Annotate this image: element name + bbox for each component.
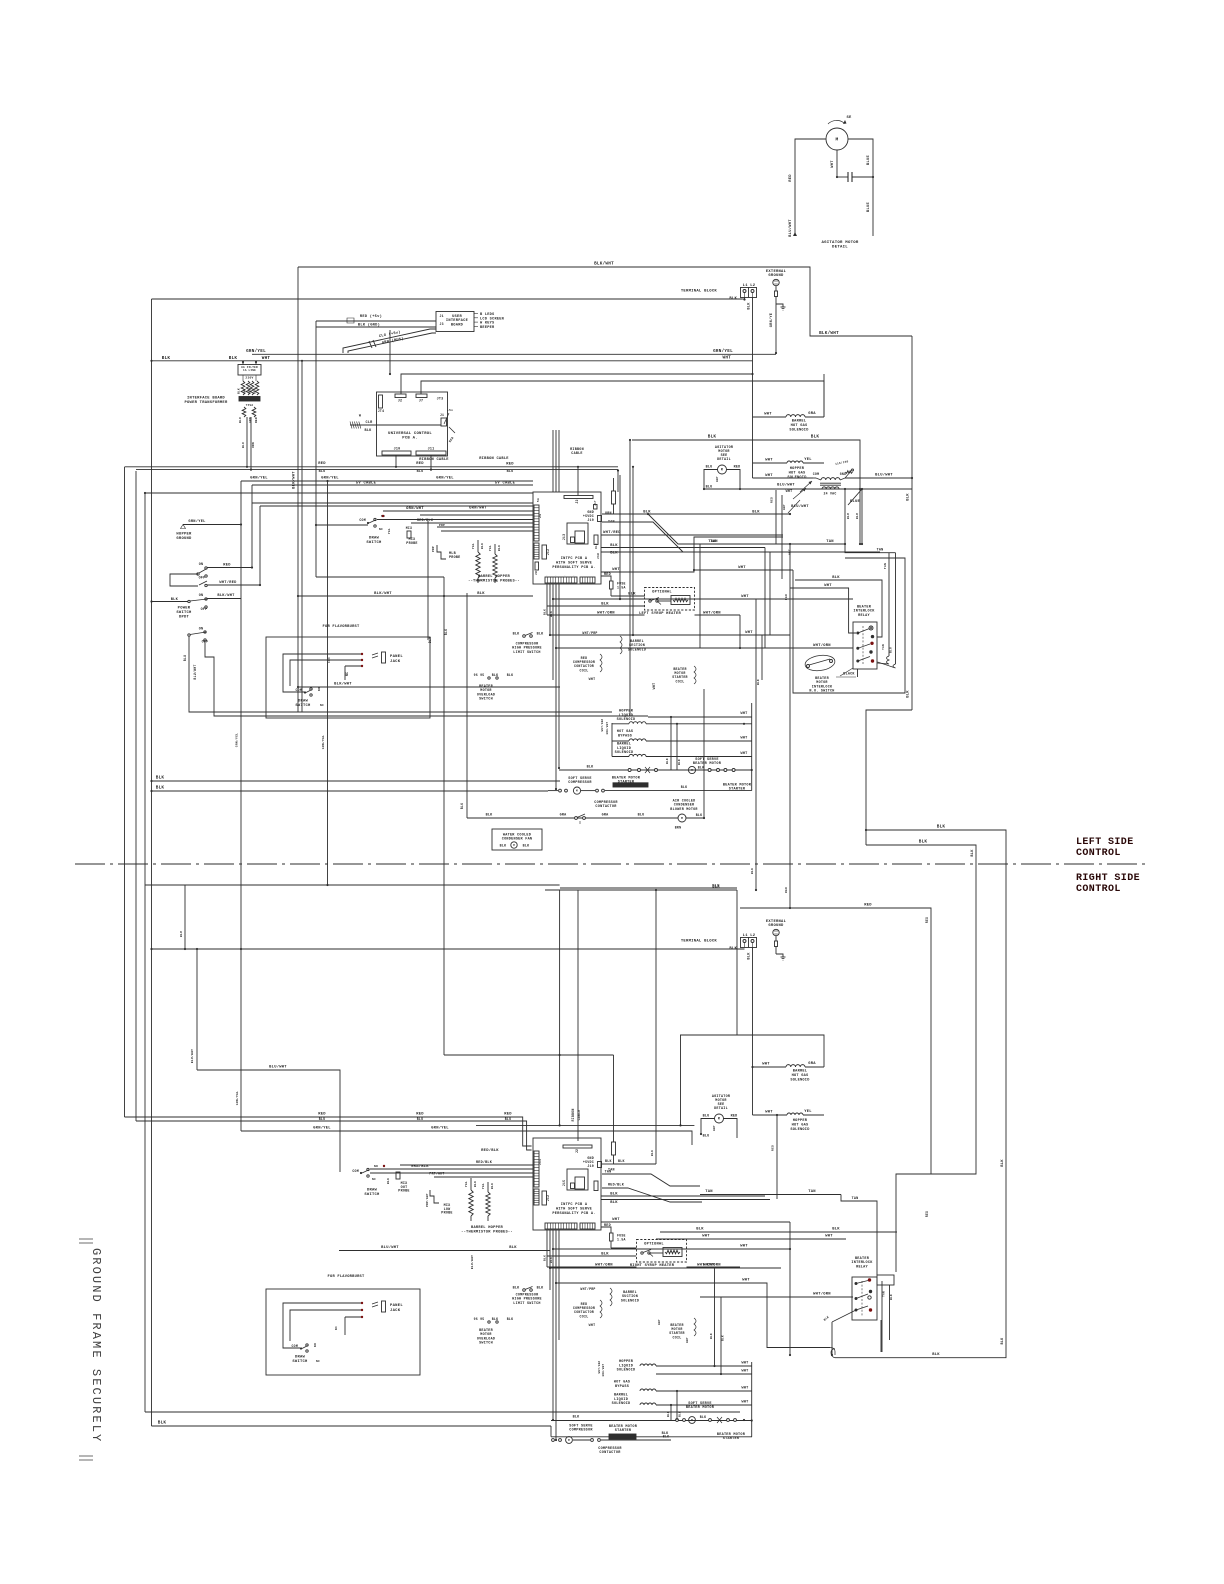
svg-text:.: . [546, 574, 548, 577]
svg-text:M: M [718, 1117, 720, 1121]
svg-text:ORN/WHT: ORN/WHT [406, 506, 424, 511]
svg-text:BLU/WHT: BLU/WHT [193, 664, 197, 679]
wire GRN/YEL ground drop [769, 304, 777, 354]
wire riser x390 [389, 330, 391, 375]
barrel hot gas solenoid box bottom [681, 1035, 825, 1125]
wire bus BLU ribbon [136, 470, 618, 474]
wire diagonal GRN to UIB [348, 333, 436, 353]
syrup heater switch top [649, 598, 671, 605]
svg-text:+5v: +5v [447, 409, 453, 412]
label left side control [1076, 837, 1134, 859]
svg-text:J14: J14 [539, 1159, 542, 1165]
svg-text:GRN/YEL: GRN/YEL [246, 349, 266, 354]
svg-text:BLU: BLU [703, 1115, 710, 1119]
svg-text:CONTROL: CONTROL [1076, 848, 1121, 859]
wire relay right TAN BLU bottom [882, 1281, 893, 1352]
panel jack top [372, 652, 403, 664]
svg-text:OFF: OFF [199, 577, 206, 581]
wire WHT right pcb [601, 537, 793, 572]
connector plug marks diag [369, 340, 376, 348]
wire vert x197 bottom [196, 949, 198, 1070]
wire relay drop bottoms [857, 669, 859, 677]
thermistor R2 bottom [482, 1182, 494, 1221]
svg-text:WHT: WHT [741, 1401, 748, 1405]
svg-text:WHT: WHT [686, 1337, 689, 1343]
wire vert x428 [428, 521, 432, 643]
wire BLK y1437 bottom [551, 1362, 752, 1437]
svg-text:BLK: BLK [544, 1255, 547, 1261]
svg-text:BLK: BLK [474, 1181, 477, 1187]
svg-text:J7: J7 [419, 400, 424, 404]
compressor high pressure switch bottom [512, 1287, 544, 1306]
svg-text:BLU: BLU [706, 466, 713, 470]
svg-text:BLK/WHT: BLK/WHT [217, 593, 235, 598]
wire pcb drops b [544, 1230, 560, 1441]
svg-text:SOLENOID: SOLENOID [612, 1402, 631, 1406]
wire left border v1 [124, 467, 126, 1117]
svg-text:BLK: BLK [628, 593, 636, 597]
svg-text:STARTER: STARTER [729, 788, 746, 792]
svg-text:GRN/YE: GRN/YE [769, 312, 774, 327]
wire relay right TAN BLU [882, 644, 893, 653]
svg-text:SWITCH: SWITCH [364, 1193, 380, 1197]
svg-text:PROBE: PROBE [406, 542, 417, 546]
wire vert x656 bottom [614, 890, 657, 1164]
svg-text:RIGHT SIDE: RIGHT SIDE [1076, 873, 1140, 884]
svg-text:GRN/YEL: GRN/YEL [321, 735, 325, 749]
user interface board U2 [436, 312, 474, 332]
wire cluster mid verticals [617, 439, 634, 716]
svg-text:SOLENOID: SOLENOID [790, 1078, 810, 1082]
svg-text:SOLENOID: SOLENOID [628, 648, 646, 652]
svg-text:BLK: BLK [748, 952, 752, 960]
svg-text:BLK: BLK [162, 356, 171, 361]
svg-text:BLU/WHT: BLU/WHT [269, 1065, 287, 1070]
wire TAN bottom pcb [602, 1170, 700, 1187]
wire bus y949 bottom [152, 948, 745, 950]
svg-text:GROUND: GROUND [176, 537, 192, 541]
wire TAN jog [602, 522, 880, 552]
svg-text:UNIVERSAL CONTROL: UNIVERSAL CONTROL [388, 432, 432, 436]
svg-text:CONTACTOR: CONTACTOR [595, 805, 617, 809]
svg-text:ON: ON [199, 563, 204, 567]
wire bus y503 [252, 502, 533, 504]
wire RED/BLK [411, 518, 533, 527]
label ribbon cable 2 [479, 457, 509, 461]
svg-text:230V: 230V [245, 377, 253, 380]
svg-text:INTFC PCB A: INTFC PCB A [561, 1203, 588, 1207]
svg-text:CNC: CNC [328, 657, 331, 663]
beater motor starter coil top [652, 666, 696, 689]
svg-text:COM: COM [359, 518, 366, 522]
svg-text:WHT: WHT [589, 1323, 596, 1327]
svg-text:FOR FLAVORBURST: FOR FLAVORBURST [328, 1275, 365, 1279]
intfc pcb A box top [533, 492, 601, 584]
svg-text:BLK (GND): BLK (GND) [358, 323, 380, 328]
svg-text:HOT GAS: HOT GAS [789, 471, 806, 475]
svg-text:RED: RED [604, 1224, 611, 1228]
svg-text:BLK/WHT: BLK/WHT [594, 262, 614, 267]
svg-text:PERSONALITY PCB A.: PERSONALITY PCB A. [552, 1212, 595, 1216]
wire bus BLK top y299 [152, 298, 745, 300]
wire terminal L1 to bus [743, 298, 745, 301]
svg-text:M: M [836, 137, 839, 143]
transformer T1 secondary [239, 404, 258, 423]
svg-text:BLUE: BLUE [867, 154, 871, 165]
svg-text:WHT: WHT [741, 1362, 748, 1366]
svg-text:RED: RED [318, 1113, 326, 1117]
svg-text:RED/BLK: RED/BLK [608, 1183, 625, 1188]
wire GRA/BLK bottom [370, 1164, 533, 1169]
svg-text:WHT: WHT [765, 1111, 773, 1115]
wire probe lines bottom [400, 1160, 533, 1177]
svg-text:STARTER: STARTER [615, 1429, 632, 1433]
svg-text:BLK: BLK [158, 1421, 167, 1426]
wire BLK right2 [601, 552, 770, 556]
svg-text:M: M [513, 844, 515, 847]
label agitator motor detail [821, 241, 858, 250]
wire BLK y606 [547, 603, 645, 607]
wire vert x560 bottom [559, 890, 561, 1125]
svg-text:WHT/ORN: WHT/ORN [703, 611, 721, 616]
svg-text:BARREL HOPPER: BARREL HOPPER [478, 575, 511, 579]
optional box top [645, 588, 695, 611]
wire L2 drop bottom [752, 948, 754, 1116]
soft serve compressor top [568, 777, 648, 788]
svg-text:WHT: WHT [702, 1235, 710, 1239]
wire RED switch [207, 564, 253, 569]
svg-text:NC: NC [335, 1326, 338, 1330]
svg-text:1.5A: 1.5A [617, 586, 626, 590]
svg-text:5V CABLE: 5V CABLE [495, 482, 516, 486]
svg-text:BLU: BLU [890, 647, 893, 653]
flavorburst wiring bottom [283, 1302, 363, 1348]
svg-text:DETAIL: DETAIL [832, 246, 848, 250]
svg-text:GRN/YEL: GRN/YEL [235, 1091, 239, 1105]
svg-text:BLU: BLU [242, 442, 245, 448]
compressor motor row bottom [552, 1435, 671, 1444]
svg-text:BLK: BLK [537, 633, 545, 637]
wire cluster pcb top risers [553, 430, 579, 496]
wire relay region verticals top [765, 548, 770, 649]
svg-text:SOLENOID: SOLENOID [621, 1299, 639, 1303]
wire condenser row top [467, 814, 681, 830]
svg-text:OPTIONAL: OPTIONAL [644, 1243, 664, 1247]
svg-text:COM: COM [296, 688, 303, 692]
connector JT4 [378, 395, 385, 413]
wire pcb drops [544, 584, 561, 790]
power switch S1 pole1 [197, 563, 207, 581]
wire WHT y587 [790, 584, 856, 633]
wire vert BLK/WHT left [292, 267, 299, 712]
svg-text:GRN/YEL: GRN/YEL [431, 1126, 449, 1131]
syrup heater switch bottom [641, 1250, 663, 1257]
wire compressor row top [152, 776, 561, 782]
svg-text:BLK/WHT: BLK/WHT [334, 682, 352, 687]
wire relay drop y1330 [0, 0, 1, 1]
svg-text:BARREL: BARREL [793, 1070, 807, 1074]
wire WHT y1283 [555, 1279, 835, 1356]
wire x744 bottom [751, 1419, 753, 1421]
svg-text:RELAY: RELAY [858, 614, 870, 618]
svg-text:BRN: BRN [675, 826, 682, 830]
svg-text:BYPASS: BYPASS [618, 734, 632, 738]
svg-text:J18: J18 [597, 553, 600, 559]
svg-text:BLU: BLU [417, 470, 424, 474]
svg-text:WHT: WHT [765, 474, 773, 478]
svg-text:WHT: WHT [589, 677, 596, 681]
svg-text:SWITCH: SWITCH [295, 704, 311, 708]
svg-text:INTFC PCB A: INTFC PCB A [561, 557, 588, 561]
wire BLK right b1 [601, 1193, 765, 1197]
svg-text:WHT: WHT [789, 549, 792, 555]
svg-text:COIL: COIL [673, 1335, 682, 1339]
wire RED/BLK pcb1 [481, 1148, 499, 1153]
svg-text:BLK: BLK [523, 844, 530, 848]
pcb label GND 5VDC J10 [583, 510, 615, 524]
wire WHT/ORN y1268 [549, 1263, 781, 1270]
barrel hot gas solenoid top [753, 374, 825, 432]
flavorburst wiring top [283, 653, 363, 692]
svg-text:SWITCH: SWITCH [366, 541, 382, 545]
svg-text:J3: J3 [440, 322, 444, 326]
label compressor contactor top [594, 801, 618, 809]
draw switch flavorburst top [295, 687, 324, 708]
wire ribbon cable label bottom [571, 1109, 581, 1122]
wire bus GRN/YEL y481 [241, 476, 533, 482]
wire bus y1125 bottom [476, 1124, 694, 1126]
wire 24v secondary down [844, 489, 863, 545]
wire agitator right BLUE [848, 139, 873, 236]
svg-text:WITH SOFT SERVE: WITH SOFT SERVE [556, 562, 593, 566]
svg-text:BLK: BLK [156, 776, 165, 781]
svg-text:BLK: BLK [507, 673, 514, 677]
svg-text:BLK: BLK [229, 356, 238, 361]
svg-text:J2: J2 [575, 1149, 579, 1153]
svg-text:YEL: YEL [472, 543, 475, 549]
svg-text:HOT GAS: HOT GAS [791, 424, 808, 428]
wire J7 riser [421, 381, 824, 417]
svg-text:BLK: BLK [610, 544, 618, 548]
soft serve compressor bottom [569, 1425, 638, 1440]
svg-text:COMPRESSOR: COMPRESSOR [568, 781, 592, 785]
svg-text:SOLENOID: SOLENOID [790, 1128, 810, 1132]
beater motor interlock switch top [804, 653, 836, 693]
hopper ground [176, 519, 241, 541]
svg-text:1A LINE: 1A LINE [243, 369, 256, 372]
wire vert x327 [321, 480, 329, 886]
wire right syrup heater [547, 1263, 740, 1269]
wire bus y362 BLK-WHT [152, 355, 753, 361]
barrel section solenoid top [582, 631, 646, 654]
svg-text:WHT: WHT [741, 1370, 748, 1374]
power switch S1 pole2 [188, 594, 208, 612]
svg-text:WHT: WHT [745, 631, 753, 635]
svg-text:CONDENSER FAN: CONDENSER FAN [502, 838, 533, 842]
svg-text:NC: NC [372, 1178, 376, 1181]
wire bottom long y1412 [145, 1411, 740, 1413]
svg-text:.: . [564, 574, 566, 577]
connector DLR bottom [594, 1181, 598, 1191]
terminal block top [681, 284, 757, 310]
compressor motor row top [548, 785, 752, 794]
svg-text:BLK: BLK [601, 603, 609, 607]
wire WHT y599 [552, 595, 853, 600]
external ground top [766, 270, 787, 304]
svg-text:JT4: JT4 [378, 409, 385, 413]
svg-text:WHT: WHT [740, 752, 747, 756]
svg-text:DRAW: DRAW [367, 1189, 378, 1193]
connector J8 bottom strip [545, 574, 577, 584]
svg-text:GRN/YEL: GRN/YEL [436, 476, 454, 481]
wire WHT y635 [549, 631, 790, 636]
svg-text:GRA: GRA [560, 814, 568, 818]
wire RED +5v to UIB [316, 314, 436, 323]
svg-text:BLK: BLK [832, 1228, 840, 1232]
svg-text:BLUE: BLUE [867, 201, 871, 212]
svg-text:BEATER MOTOR: BEATER MOTOR [686, 1406, 715, 1410]
svg-text:RED: RED [504, 1113, 512, 1117]
svg-text:5A: 5A [537, 498, 540, 502]
svg-text:PANEL: PANEL [390, 655, 403, 659]
wire J2 riser [401, 373, 754, 394]
svg-text:WHT: WHT [716, 476, 719, 482]
svg-text:LIMIT SWITCH: LIMIT SWITCH [513, 1302, 540, 1306]
wire BLU/WHT right [845, 473, 913, 480]
svg-text:--THERMISTOR PROBES--: --THERMISTOR PROBES-- [461, 1231, 513, 1235]
svg-text:BLU: BLU [505, 1117, 512, 1121]
svg-text:BLU: BLU [417, 1117, 424, 1121]
wire BLU/PL label [0, 0, 1, 1]
svg-text:DRAW: DRAW [369, 537, 380, 541]
svg-text:COIL: COIL [580, 1314, 589, 1318]
wire right jog [866, 710, 912, 845]
wire ORN/WHT [383, 506, 533, 512]
label ribbon cable vert [570, 448, 584, 456]
svg-text:GND: GND [840, 472, 847, 476]
wire vert x302 [301, 360, 303, 712]
hopper liquid solenoid bottom [617, 1360, 752, 1373]
wire left syrup heater [547, 611, 741, 650]
wire bus GRN/YEL bottom [241, 1126, 692, 1145]
thermistor R2 top [489, 544, 501, 583]
wire vert x714 bottom [710, 1268, 725, 1375]
wire transformer secondary drops [242, 417, 255, 470]
connector J1 [440, 409, 455, 443]
beater interlock relay K1 bottom [851, 1257, 894, 1320]
connector DLR right [594, 535, 598, 549]
svg-text:BLK: BLK [486, 814, 494, 818]
svg-text:BLU/WHT: BLU/WHT [777, 483, 795, 488]
svg-text:PRP/WHT: PRP/WHT [425, 1193, 429, 1207]
svg-text:GRN/YEL: GRN/YEL [321, 476, 339, 481]
mix out probe bottom [396, 1172, 429, 1207]
svg-text:J15: J15 [562, 1180, 566, 1187]
svg-text:J10: J10 [587, 1164, 594, 1168]
svg-text:GRN/YEL: GRN/YEL [235, 733, 239, 747]
svg-text:RED: RED [249, 388, 252, 394]
connector J2 strip top [564, 496, 593, 504]
svg-text:BLK: BLK [550, 611, 553, 617]
wire vert BLK right [907, 336, 913, 710]
wire WHT/ORN y615b [0, 0, 1, 1]
label intfc pcb bottom [552, 1203, 595, 1216]
svg-text:SOLENOID: SOLENOID [617, 718, 636, 722]
svg-text:BOARD: BOARD [451, 323, 464, 327]
label ribbon cable 1 [419, 458, 449, 462]
svg-text:BLK: BLK [601, 1253, 609, 1257]
line filter FL1 [238, 361, 261, 375]
universal control label [388, 432, 432, 441]
component varistor bottom [612, 1142, 616, 1164]
svg-text:BLU: BLU [856, 513, 859, 519]
wire RED y908 [740, 904, 931, 1218]
svg-text:M: M [576, 790, 578, 793]
wire BLUE diag [847, 489, 862, 519]
wire left border v4 [150, 299, 152, 1426]
svg-text:WHT: WHT [740, 1245, 748, 1249]
svg-text:RED: RED [604, 573, 611, 577]
svg-text:DETAIL: DETAIL [717, 458, 731, 462]
svg-text:J13: J13 [562, 534, 566, 541]
wire bus y493 GRN/YEL [144, 492, 533, 494]
wire BLK from fuse b [611, 1247, 636, 1249]
svg-text:RED: RED [318, 462, 326, 466]
svg-text:RED: RED [223, 564, 231, 568]
beater motor overload bottom [474, 1317, 514, 1346]
svg-text:BLK: BLK [618, 1159, 625, 1163]
svg-text:NC: NC [316, 1360, 320, 1363]
wire PRP/WHT bottom [370, 1172, 533, 1176]
svg-text:YEL: YEL [465, 1181, 468, 1187]
beater motor starter coil bottom [658, 1318, 696, 1343]
wire vert x671 top [666, 716, 681, 770]
label interface board power transformer [185, 397, 228, 405]
personality module chip [562, 523, 588, 544]
wire WHT/ORN y648 [555, 635, 853, 680]
svg-text:DRAW: DRAW [295, 1356, 306, 1360]
svg-text:TERMINAL BLOCK: TERMINAL BLOCK [681, 940, 718, 944]
svg-text:BLK: BLK [832, 576, 840, 580]
wire BLK right1 [601, 544, 765, 548]
svg-text:RED: RED [506, 463, 514, 467]
svg-text:BLK: BLK [651, 1150, 654, 1156]
hot gas bypass top [612, 730, 752, 741]
svg-text:BLU/WHT: BLU/WHT [381, 1245, 399, 1250]
svg-text:GRA: GRA [808, 412, 816, 416]
svg-text:GRA: GRA [602, 814, 610, 818]
wire diagonal CLG to UIB [343, 329, 436, 353]
svg-text:NO: NO [318, 687, 321, 691]
svg-text:SOLENOID: SOLENOID [617, 1369, 636, 1373]
beater motor overload top [474, 673, 514, 702]
wire bus y506 [260, 505, 533, 507]
beater motor starter right top [723, 784, 752, 792]
svg-text:BLK: BLK [428, 637, 432, 644]
intfc pcb A box bottom [533, 1138, 601, 1230]
red compressor contactor coil top [573, 654, 602, 681]
svg-text:SWITCH: SWITCH [479, 698, 493, 702]
wire y489 row [704, 488, 912, 490]
power switch loop [170, 574, 207, 587]
wire BLK to switch [150, 598, 188, 603]
svg-text:POWER: POWER [178, 607, 191, 611]
svg-text:PROBE: PROBE [441, 1212, 452, 1216]
svg-text:BLK: BLK [667, 1411, 670, 1417]
connector JT3 [437, 398, 444, 402]
wire y1055 bottom [444, 1054, 614, 1142]
svg-text:BLK: BLK [666, 758, 669, 764]
